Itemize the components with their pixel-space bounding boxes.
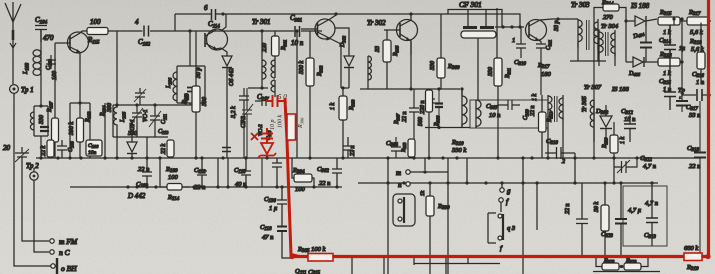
- switch contact m mid: [396, 158, 448, 177]
- capacitor 22n x408: [394, 89, 419, 158]
- svg-text:22 n: 22 n: [530, 106, 536, 117]
- wire x228: [227, 158, 229, 187]
- wire left leg: [69, 103, 71, 158]
- svg-text:R104: R104: [100, 105, 107, 117]
- capacitor C322: [614, 155, 656, 173]
- top rail y28: [82, 30, 322, 32]
- svg-text:L105: L105: [120, 111, 127, 123]
- svg-text:R307: R307: [394, 113, 401, 125]
- svg-text:R301: R301: [281, 40, 288, 51]
- svg-text:330: 330: [430, 61, 436, 71]
- svg-text:2: 2: [562, 159, 565, 165]
- coil L105: [114, 105, 127, 128]
- svg-text:CT-2: CT-2: [241, 116, 247, 128]
- svg-text:D 442: D 442: [127, 192, 146, 200]
- svg-text:22 k: 22 k: [41, 146, 47, 157]
- wire x262: [261, 158, 263, 187]
- capacitor C318: [687, 101, 706, 256]
- svg-text:IS 188: IS 188: [630, 2, 650, 10]
- trimmer VC-1: [131, 105, 149, 126]
- transistor T1: [55, 31, 89, 53]
- red X mark: [251, 133, 258, 140]
- IF transformer T2: [460, 87, 481, 128]
- tank circuit L101 / 330: [30, 106, 49, 136]
- svg-text:10 n: 10 n: [489, 112, 500, 119]
- test point Tp2: [26, 162, 39, 180]
- svg-text:R107: R107: [47, 101, 54, 113]
- capacitor C307: [486, 100, 520, 119]
- capacitor C102: [135, 18, 151, 48]
- svg-text:6: 6: [204, 4, 208, 12]
- svg-text:10 p: 10 p: [270, 120, 276, 131]
- resistor R115: [87, 18, 108, 46]
- diode OS442: [222, 56, 235, 158]
- capacitor 22n lower: [565, 183, 588, 256]
- svg-text:22 k: 22 k: [161, 144, 167, 155]
- resistor R317: [687, 9, 711, 36]
- svg-text:CT-1: CT-1: [130, 119, 136, 131]
- svg-text:4,7 n: 4,7 n: [643, 163, 656, 170]
- resistor R314: [594, 0, 626, 30]
- resistor R312: [523, 94, 554, 159]
- coil small x600: [590, 100, 594, 142]
- wire x594 down: [593, 30, 595, 158]
- resistor R330: [420, 183, 450, 274]
- capacitor C310a: [512, 27, 526, 67]
- bus y183: [358, 182, 658, 184]
- transistor Tr302: [384, 14, 418, 55]
- wire x684 vertical: [681, 19, 683, 95]
- svg-text:680 k: 680 k: [684, 245, 698, 252]
- svg-text:390: 390: [107, 103, 113, 113]
- capacitor det: [639, 21, 652, 62]
- wire right leg: [89, 103, 91, 158]
- switch assembly q1: [393, 183, 415, 226]
- node y89: [409, 87, 412, 90]
- svg-text:33 n: 33 n: [688, 112, 700, 119]
- svg-text:22 n: 22 n: [565, 204, 571, 215]
- wire x537 down: [536, 183, 538, 230]
- wire T2 emitter down: [221, 48, 227, 56]
- svg-text:R305 100 k: R305 100 k: [297, 246, 325, 254]
- svg-text:100: 100: [90, 18, 101, 26]
- resistor R308: [418, 90, 441, 158]
- wire rail link: [174, 14, 176, 31]
- wire x523 down: [522, 158, 524, 274]
- svg-text:30 p: 30 p: [196, 68, 202, 80]
- test point Tp1: [10, 85, 34, 94]
- rail y137 tank bottom: [113, 136, 168, 138]
- svg-text:C111: C111: [161, 114, 168, 124]
- svg-text:D405: D405: [628, 71, 641, 77]
- bus y192: [70, 186, 342, 188]
- resistor 22k x170: [161, 140, 174, 157]
- svg-text:100 k: 100 k: [278, 115, 284, 129]
- wire x388 down: [387, 158, 389, 183]
- svg-text:390: 390: [202, 97, 208, 107]
- wire x467 down: [466, 158, 468, 183]
- node tank: [39, 104, 42, 107]
- Tp arrow: [678, 87, 686, 99]
- svg-text:g: g: [507, 187, 511, 195]
- resistor 39k: [594, 183, 609, 256]
- svg-text:Tr 304: Tr 304: [601, 23, 619, 30]
- rail y89 center: [360, 88, 460, 90]
- svg-text:22 n: 22 n: [402, 112, 408, 123]
- variable capacitor 20: [3, 144, 29, 162]
- red wire bottom rail: [291, 255, 708, 258]
- svg-text:100: 100: [295, 186, 306, 193]
- svg-text:Tr 303: Tr 303: [571, 1, 590, 9]
- wire x218: [217, 158, 219, 187]
- svg-text:22 n: 22 n: [194, 184, 205, 191]
- capacitor C312: [621, 108, 636, 142]
- capacitor C311: [536, 40, 553, 95]
- capacitor C316: [692, 71, 704, 86]
- svg-text:180: 180: [541, 71, 552, 78]
- wire x121: [116, 31, 118, 105]
- resistor R311: [488, 8, 512, 158]
- coil small x368: [368, 56, 371, 80]
- svg-text:R308: R308: [434, 115, 441, 127]
- wire x626 down: [625, 21, 627, 62]
- contact m FM: [50, 237, 78, 246]
- capacitor 22n x348: [343, 137, 356, 158]
- wire antenna feed: [12, 40, 14, 84]
- coil Tr305: [548, 95, 563, 158]
- transformer T301: [262, 31, 275, 97]
- capacitor C116b: [272, 158, 282, 187]
- svg-text:560: 560: [418, 117, 424, 126]
- svg-text:1 k: 1 k: [330, 103, 336, 111]
- svg-text:330 k: 330 k: [451, 147, 466, 154]
- capacitor 220n: [420, 89, 435, 114]
- svg-text:22 n: 22 n: [350, 146, 356, 157]
- svg-text:R302: R302: [317, 65, 324, 77]
- resistor R302: [299, 31, 324, 158]
- wire branch x105: [104, 103, 106, 158]
- tank L106: [166, 29, 205, 105]
- svg-text:R311: R311: [505, 68, 512, 79]
- svg-text:Tr 301: Tr 301: [252, 18, 270, 26]
- capacitor C115: [234, 158, 251, 188]
- wire T1 emitter down: [79, 52, 81, 103]
- resistor R317b: [537, 62, 552, 78]
- trimmer upper: [134, 88, 146, 105]
- svg-text:33 p: 33 p: [554, 21, 560, 33]
- svg-text:L106: L106: [166, 77, 173, 89]
- module outline mid: [470, 100, 548, 128]
- red resistor R305: [308, 254, 333, 262]
- svg-text:R320: R320: [602, 137, 609, 149]
- svg-text:330: 330: [39, 115, 45, 125]
- contact f: [499, 198, 509, 212]
- capacitor stack: [676, 101, 688, 106]
- red junction blob: [289, 254, 294, 259]
- coil L103: [22, 50, 41, 78]
- svg-text:20: 20: [3, 144, 11, 152]
- wire tank to bus: [117, 137, 147, 158]
- contact n C: [50, 248, 71, 257]
- wire Tp2 to contact n: [34, 168, 49, 252]
- svg-text:4: 4: [135, 18, 139, 26]
- resistor R316: [658, 51, 682, 77]
- capacitor C313: [644, 183, 658, 246]
- svg-text:47 n: 47 n: [262, 234, 273, 241]
- svg-text:R303: R303: [349, 99, 356, 111]
- svg-text:n C: n C: [59, 248, 71, 257]
- ceramic filter CF301: [448, 10, 502, 101]
- bus y158: [36, 157, 700, 159]
- capacitor C117: [255, 93, 269, 106]
- rail y14: [175, 14, 520, 27]
- svg-text:39 k: 39 k: [594, 202, 600, 214]
- capacitor c-mid: [435, 87, 443, 127]
- capacitor C314: [659, 25, 676, 58]
- svg-text:CF 301: CF 301: [459, 0, 482, 9]
- resistor R301: [262, 31, 288, 56]
- resistor R320: [602, 122, 626, 183]
- capacitor C302: [317, 158, 342, 187]
- capacitor C310b: [545, 138, 575, 165]
- capacitor C105: [57, 140, 75, 158]
- diode D404: [626, 16, 657, 40]
- svg-text:Tr 305: Tr 305: [582, 96, 588, 112]
- svg-text:m: m: [396, 169, 401, 177]
- svg-text:Tp 2: Tp 2: [26, 162, 39, 170]
- switch contact n mid: [398, 181, 410, 189]
- contact g: [500, 183, 511, 195]
- diode D303: [595, 105, 612, 142]
- resistor R304: [292, 158, 314, 193]
- red capacitor: [266, 95, 286, 107]
- contact o BH: [51, 258, 77, 274]
- capacitor C118: [260, 224, 292, 258]
- wires below red line: [352, 258, 468, 274]
- switch assembly q3: [488, 213, 516, 252]
- node: [115, 103, 118, 106]
- capacitor at x244: [239, 88, 249, 158]
- svg-text:Tp 1: Tp 1: [21, 86, 34, 94]
- wire tank to bus: [40, 136, 42, 158]
- capacitor on emitter line: [222, 148, 231, 152]
- svg-text:33: 33: [375, 46, 381, 53]
- svg-text:270: 270: [603, 14, 614, 21]
- svg-text:330: 330: [488, 67, 494, 77]
- capacitor C304: [386, 137, 401, 158]
- resistor R309: [430, 14, 460, 89]
- trimmer CT-2: [241, 88, 272, 158]
- capacitor C112: [194, 158, 207, 191]
- red wire vertical main: [285, 98, 299, 257]
- capacitor C317: [682, 89, 711, 119]
- svg-text:o BH: o BH: [61, 264, 77, 273]
- svg-text:C113: C113: [158, 129, 169, 135]
- resistor R102: [77, 103, 92, 158]
- svg-text:22 n: 22 n: [319, 180, 330, 187]
- wire x448 down: [447, 172, 449, 274]
- rail y103: [113, 104, 196, 106]
- svg-text:470: 470: [43, 34, 54, 42]
- svg-text:1: 1: [512, 37, 515, 44]
- wire x388 below: [387, 183, 389, 274]
- svg-text:R306: R306: [298, 117, 305, 129]
- resistor tall x412: [401, 139, 415, 157]
- svg-text:C108: C108: [88, 143, 99, 149]
- svg-text:R103: R103: [182, 93, 189, 105]
- svg-text:Tp: Tp: [678, 87, 686, 94]
- antenna: [5, 2, 21, 48]
- node emitter: [78, 101, 81, 104]
- svg-text:D302: D302: [340, 35, 347, 48]
- svg-text:10n: 10n: [88, 150, 97, 156]
- wire x368: [367, 56, 369, 89]
- svg-text:R313: R313: [401, 143, 407, 153]
- resistor R114: [160, 158, 190, 202]
- transistor Tr303: [526, 17, 579, 41]
- svg-text:R305: R305: [393, 45, 400, 57]
- transformer T304: [594, 30, 615, 66]
- svg-text:q 3: q 3: [507, 225, 516, 232]
- diode D442: [127, 120, 146, 200]
- capacitor C114: [204, 4, 220, 30]
- svg-text:220: 220: [262, 43, 268, 52]
- wire C104 to base node: [40, 29, 42, 54]
- junction row y88: [248, 87, 268, 89]
- svg-text:4,7 μ: 4,7 μ: [628, 207, 642, 214]
- capacitor C130: [264, 187, 287, 226]
- svg-text:1 k: 1 k: [532, 94, 538, 102]
- svg-text:C105: C105: [68, 140, 75, 152]
- transistor Tr301: [301, 14, 349, 88]
- capacitor C104: [35, 16, 54, 42]
- resistor 22k lower-left: [41, 140, 54, 157]
- resistor R103: [182, 31, 208, 158]
- svg-text:3,2 k: 3,2 k: [231, 106, 237, 119]
- resistor R318: [689, 23, 705, 85]
- svg-text:n: n: [398, 181, 402, 189]
- capacitor C301: [290, 14, 304, 47]
- svg-text:C309: C309: [523, 108, 530, 120]
- resistor R303: [330, 88, 356, 158]
- svg-text:C311: C311: [546, 40, 553, 50]
- wire mid rail y127: [425, 127, 470, 129]
- red zener diode: [258, 143, 276, 158]
- resistor R315: [658, 9, 687, 36]
- capacitor C108 box: [86, 140, 102, 156]
- transformer T303: [570, 19, 606, 61]
- svg-text:1 μ: 1 μ: [269, 205, 278, 212]
- wire x575: [574, 153, 576, 183]
- capacitor C109: [136, 158, 152, 189]
- wire Tr302 emitter: [410, 41, 412, 89]
- svg-text:330 k: 330 k: [299, 61, 305, 76]
- transistor T2: [205, 14, 228, 50]
- svg-text:1k: 1k: [420, 190, 426, 196]
- diode D302: [340, 35, 354, 89]
- wire cap to contact m: [22, 162, 49, 241]
- svg-text:1 k: 1 k: [620, 137, 626, 145]
- svg-text:IS 188: IS 188: [611, 86, 630, 93]
- resistors R323 R329 bottom: [593, 256, 660, 272]
- red wire right rail: [707, 0, 710, 257]
- svg-text:m FM: m FM: [59, 237, 78, 246]
- wire filter base row: [495, 26, 524, 28]
- svg-text:100: 100: [168, 174, 179, 181]
- diode D405: [626, 57, 658, 77]
- wire x297: [296, 31, 298, 158]
- capacitor C315: [659, 58, 676, 110]
- capacitor C103: [46, 55, 58, 80]
- svg-text:Tr 302: Tr 302: [367, 19, 386, 27]
- svg-text:22 n: 22 n: [689, 163, 700, 170]
- trimmer C111: [149, 105, 168, 130]
- resistor R107: [47, 43, 59, 158]
- red resistor R319: [684, 253, 702, 261]
- module outline box: [623, 186, 667, 246]
- resistor R306b: [375, 30, 400, 89]
- wire y263 lower right: [414, 263, 500, 265]
- bus junction dots: [39, 12, 665, 188]
- svg-text:VC-1: VC-1: [143, 109, 149, 122]
- svg-text:Tr 307: Tr 307: [584, 84, 602, 91]
- wire coil to tank: [40, 78, 42, 106]
- electrolytic 4.7u: [601, 183, 642, 256]
- svg-text:OS 442: OS 442: [228, 68, 235, 86]
- wire antenna to bottom switch: [14, 93, 56, 266]
- svg-text:1 n: 1 n: [696, 79, 704, 86]
